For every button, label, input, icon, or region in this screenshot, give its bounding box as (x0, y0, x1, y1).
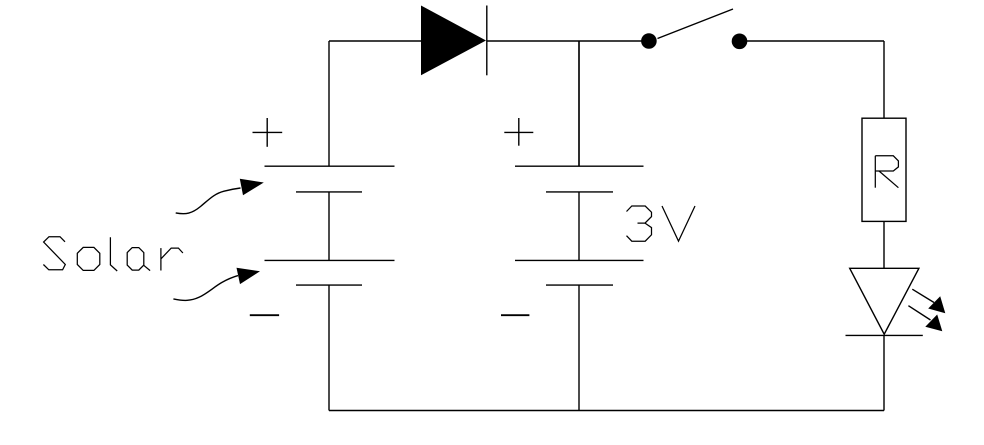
solar light arrow 2 (173, 268, 260, 301)
solar minus sign (250, 314, 279, 316)
node junction battery branch (578, 41, 580, 166)
LED D2 light arrow 1 (912, 289, 945, 313)
battery BT1 middle link (578, 192, 580, 261)
label R (875, 156, 898, 188)
LED D2 cathode bar (846, 334, 923, 336)
battery BT1 plate long 2 (515, 259, 644, 261)
solar cell PV1 plate long 2 (265, 259, 395, 261)
wire diode cathode to switch pole (487, 40, 648, 42)
label 3V (627, 206, 696, 241)
switch S1 throw dot (732, 34, 748, 50)
battery BT1 plate short 2 (546, 284, 613, 286)
solar cell PV1 bottom lead (328, 285, 330, 410)
label Solar (43, 237, 183, 271)
battery minus sign (501, 314, 529, 316)
solar light arrow 1 (176, 179, 264, 214)
battery plus sign (504, 118, 533, 146)
battery BT1 plate long 1 (515, 165, 644, 167)
diode D1 cathode bar (486, 6, 488, 76)
solar cell PV1 top lead (328, 41, 330, 166)
battery BT1 plate short 1 (546, 191, 613, 193)
solar plus sign (253, 118, 283, 147)
wire LED to bottom-right corner (883, 335, 885, 410)
solar cell PV1 plate short 1 (296, 191, 362, 193)
resistor R body (862, 118, 906, 221)
diode D1 (421, 6, 486, 76)
switch S1 pole dot (641, 33, 657, 49)
wire bottom horizontal (329, 410, 884, 412)
battery BT1 bottom lead (578, 285, 580, 410)
wire resistor to LED (883, 221, 885, 268)
wire switch to top-right corner (740, 40, 885, 42)
LED D2 light arrow 2 (908, 306, 942, 332)
wire right vertical to resistor (883, 41, 885, 118)
solar cell PV1 plate short 2 (296, 284, 362, 286)
wire top from solar corner to diode anode (329, 40, 421, 42)
solar cell PV1 middle link (328, 192, 330, 261)
switch S1 lever (658, 9, 734, 39)
solar cell PV1 plate long 1 (265, 165, 395, 167)
LED D2 triangle (850, 268, 919, 334)
battery BT1 top lead (578, 41, 580, 166)
